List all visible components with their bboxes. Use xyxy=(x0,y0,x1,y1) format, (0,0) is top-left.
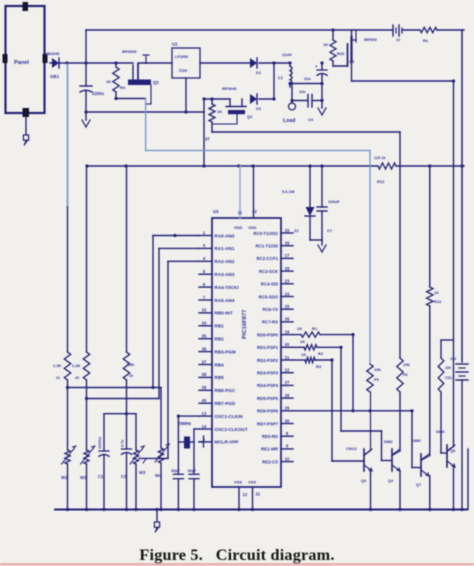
wire pin3 row xyxy=(85,397,159,400)
pin 23 RC4-SDI xyxy=(261,279,293,287)
power rail y166 xyxy=(87,165,464,167)
svg-text:120 1k: 120 1k xyxy=(374,156,387,160)
svg-text:D1: D1 xyxy=(256,70,262,75)
pin 13 OSC1-CLKIN xyxy=(199,411,243,419)
pin 38 RB5 xyxy=(199,372,224,380)
svg-text:22u: 22u xyxy=(304,77,311,81)
svg-text:5.6-1W: 5.6-1W xyxy=(282,189,295,194)
wire D1 to L1 node xyxy=(259,61,292,64)
net 37 label xyxy=(205,137,210,142)
wire rail to corner xyxy=(437,29,464,31)
wire pin29 row xyxy=(293,409,412,412)
ground bus xyxy=(55,509,467,511)
resistor R10 1K xyxy=(323,30,345,66)
solar panel PV1 xyxy=(3,2,48,117)
ground arrow C7 xyxy=(318,245,326,252)
wire rail seg xyxy=(352,29,393,31)
svg-text:37: 37 xyxy=(202,359,207,364)
svg-text:R13: R13 xyxy=(434,300,441,304)
pin 17 RC2-CCP1 xyxy=(257,253,294,261)
transistor Q4 D882 xyxy=(341,431,400,483)
resistor R12 inline xyxy=(374,156,396,184)
ground arrow under C xyxy=(82,112,90,127)
svg-text:VDD: VDD xyxy=(248,225,257,230)
svg-text:10K: 10K xyxy=(403,363,410,367)
svg-text:Q8: Q8 xyxy=(450,449,455,453)
svg-text:RD0-PSP0: RD0-PSP0 xyxy=(257,332,279,337)
svg-text:P5: P5 xyxy=(374,378,379,382)
svg-text:C1: C1 xyxy=(98,474,104,479)
svg-text:RA2-AN2: RA2-AN2 xyxy=(215,259,235,264)
svg-text:MCLR-VPP: MCLR-VPP xyxy=(215,440,239,445)
figure caption xyxy=(139,546,334,564)
svg-text:Q3: Q3 xyxy=(153,80,159,85)
svg-text:34: 34 xyxy=(202,321,207,326)
svg-text:C7: C7 xyxy=(327,228,333,233)
svg-text:RC7-RX: RC7-RX xyxy=(262,320,278,325)
svg-text:Q4: Q4 xyxy=(388,479,394,483)
mosfet Q2 IRF9640 xyxy=(212,87,253,124)
wire x274 down xyxy=(272,63,275,101)
svg-text:20: 20 xyxy=(129,374,133,378)
svg-text:2200u: 2200u xyxy=(92,91,104,96)
svg-text:Con: Con xyxy=(179,68,188,73)
control line y138 xyxy=(212,131,400,133)
svg-text:RE2-CS: RE2-CS xyxy=(262,459,278,464)
svg-text:Q7: Q7 xyxy=(416,483,421,487)
wire pin1 mclr xyxy=(199,436,204,447)
svg-text:26: 26 xyxy=(285,317,290,322)
pin 21 RD2-PSP2 xyxy=(257,355,293,363)
mosfet Q5 IRF540 xyxy=(348,30,377,66)
resistor R5 1K gate xyxy=(209,99,222,132)
trimmer W2 xyxy=(80,446,95,510)
svg-text:RC2-CCP1: RC2-CCP1 xyxy=(257,256,279,261)
wire right edge down xyxy=(461,30,463,362)
transistor Q7 D880 xyxy=(412,439,429,487)
ground arrow under C5 xyxy=(318,101,326,116)
svg-text:RD6-PSP6: RD6-PSP6 xyxy=(257,409,279,414)
svg-text:W3: W3 xyxy=(139,470,146,475)
svg-text:RA3-AN3: RA3-AN3 xyxy=(215,272,235,277)
svg-text:VSS: VSS xyxy=(234,480,242,485)
svg-text:RC4-SDI: RC4-SDI xyxy=(261,282,278,287)
svg-text:RB2: RB2 xyxy=(215,337,225,342)
pin 7 RA5-AN4 xyxy=(199,295,235,303)
svg-text:Rs: Rs xyxy=(423,38,429,43)
trimmer W3 xyxy=(130,414,146,510)
pin 30 RD7-PSP7 xyxy=(257,418,293,426)
svg-text:21: 21 xyxy=(56,376,60,380)
VDD stub pin32 xyxy=(252,166,257,218)
capacitor C4 10u xyxy=(292,77,322,122)
wire x87 down xyxy=(86,166,88,352)
wire P5 to T1 xyxy=(370,392,372,451)
wire Q5 source down xyxy=(351,61,353,81)
wire Q6 emitter xyxy=(370,471,372,510)
wire R4 to gate xyxy=(114,97,145,100)
svg-text:23: 23 xyxy=(285,279,290,284)
node top rail R10 xyxy=(331,28,334,31)
wire pin3 net xyxy=(159,248,199,398)
svg-text:17: 17 xyxy=(285,253,290,258)
pin 20 RD1-PSP1 xyxy=(257,342,293,350)
svg-text:1K: 1K xyxy=(323,42,328,47)
wire x412 down xyxy=(410,409,413,467)
pin 34 RB1 xyxy=(199,321,224,329)
pin 39 RB6-PGC xyxy=(199,385,236,393)
wire x204 down to rail xyxy=(203,99,205,166)
wire panel output xyxy=(50,62,52,64)
resistor R2 1K xyxy=(293,339,343,356)
resistor P5 10K xyxy=(367,364,381,392)
wire Q8 emitter xyxy=(453,468,455,510)
capacitor C8 30pF xyxy=(171,469,183,509)
svg-text:C9013: C9013 xyxy=(346,447,357,451)
long sense wire lower xyxy=(67,207,69,352)
svg-text:R12: R12 xyxy=(377,179,385,184)
svg-text:1K: 1K xyxy=(300,339,305,344)
pin 28 RD5-PSP5 xyxy=(257,393,293,401)
svg-text:100: 100 xyxy=(445,366,451,370)
svg-text:Panel: Panel xyxy=(14,60,29,66)
pin 3 RA1-AN1 xyxy=(199,243,235,251)
svg-text:GB1: GB1 xyxy=(50,74,60,79)
svg-text:U1: U1 xyxy=(172,42,178,47)
ground hook below panel xyxy=(23,135,28,146)
svg-text:R2: R2 xyxy=(318,351,324,356)
bus junction dots xyxy=(66,508,464,511)
capacitor C1 10000u xyxy=(98,414,109,510)
wire pin4 wiper row xyxy=(139,458,168,463)
capacitor C2 4.7u xyxy=(121,414,132,510)
capacitor C9 30pF xyxy=(188,469,200,509)
wire right short xyxy=(467,449,469,510)
svg-text:IRF9640: IRF9640 xyxy=(222,87,237,91)
wire x453 vertical xyxy=(453,81,455,447)
svg-text:12: 12 xyxy=(396,38,400,42)
svg-text:33: 33 xyxy=(202,308,207,313)
svg-text:OSC1-CLKIN: OSC1-CLKIN xyxy=(215,414,244,419)
svg-text:30: 30 xyxy=(285,418,290,423)
VDD stub pin11 xyxy=(238,166,243,218)
svg-text:37: 37 xyxy=(205,137,210,142)
svg-text:+: + xyxy=(315,64,318,69)
svg-text:22uH: 22uH xyxy=(282,52,292,57)
wire C5 node xyxy=(320,61,323,64)
svg-text:1K: 1K xyxy=(106,79,111,84)
svg-text:1K: 1K xyxy=(217,109,222,114)
pin 22 RD3-PSP3 xyxy=(257,368,293,376)
svg-text:4.7u: 4.7u xyxy=(121,440,125,447)
pin 15 RC0-T1OSO xyxy=(253,228,293,236)
svg-text:18: 18 xyxy=(285,266,290,271)
svg-text:RD2-PSP2: RD2-PSP2 xyxy=(257,358,279,363)
svg-text:RC3-SCK: RC3-SCK xyxy=(259,269,279,274)
svg-text:30pF: 30pF xyxy=(171,469,180,473)
svg-text:2.2K: 2.2K xyxy=(53,363,62,368)
svg-text:2.2K: 2.2K xyxy=(72,363,81,368)
pin 9 RE1-WR xyxy=(261,444,293,452)
diode D2 xyxy=(250,94,262,111)
svg-text:R3: R3 xyxy=(316,364,322,369)
wire R10 to gate xyxy=(333,65,348,67)
gate signal wire down xyxy=(145,99,147,151)
regulator U1 LP2950 xyxy=(172,42,200,113)
svg-text:D882: D882 xyxy=(384,440,393,444)
svg-text:20MHz: 20MHz xyxy=(178,421,191,426)
pin 27 RD4-PSP4 xyxy=(257,380,293,388)
pin 16 RC1-T1OSI xyxy=(256,241,293,249)
wire pin4 net xyxy=(168,261,199,458)
svg-text:32: 32 xyxy=(252,209,257,214)
svg-text:RE0-RD: RE0-RD xyxy=(262,434,278,439)
node B junction xyxy=(84,61,87,64)
wire pin2 row xyxy=(66,386,161,389)
resistor R1 1K xyxy=(293,326,355,337)
svg-text:30pF: 30pF xyxy=(188,469,197,473)
wire y81 to right xyxy=(352,79,456,82)
scan artifact bottom pink line xyxy=(0,563,474,565)
svg-text:LP2950: LP2950 xyxy=(175,55,188,59)
wire x341 down xyxy=(340,347,342,431)
svg-text:39: 39 xyxy=(202,385,207,390)
svg-text:RA1-AN1: RA1-AN1 xyxy=(215,246,235,251)
svg-text:11: 11 xyxy=(238,210,243,215)
wire vertical x86 top xyxy=(85,30,87,63)
capacitor C7 100uF xyxy=(317,166,340,240)
wire rail seg2 xyxy=(402,29,420,31)
svg-text:Figure 5. Circuit diagram.: Figure 5. Circuit diagram. xyxy=(139,546,334,564)
crystal X1 20MHz xyxy=(178,421,194,449)
svg-text:29: 29 xyxy=(285,406,290,411)
svg-text:10000u: 10000u xyxy=(98,437,102,449)
svg-text:10u: 10u xyxy=(299,90,306,94)
svg-text:40: 40 xyxy=(202,398,207,403)
transistor Q6 C9013 xyxy=(332,447,372,483)
svg-text:RA0-AN0: RA0-AN0 xyxy=(215,233,235,238)
svg-text:RA5-AN4: RA5-AN4 xyxy=(215,298,235,303)
svg-text:RB7-PGD: RB7-PGD xyxy=(215,401,236,406)
pin 6 RA4-T0CKI xyxy=(199,282,239,290)
wire Q8 collector xyxy=(447,447,454,452)
svg-text:12V: 12V xyxy=(450,357,457,361)
wire Q6 collector xyxy=(364,392,371,456)
svg-text:R10: R10 xyxy=(337,51,345,56)
svg-text:24: 24 xyxy=(285,291,290,296)
pin 29 RD6-PSP6 xyxy=(257,406,293,414)
wire y414 row xyxy=(104,412,136,415)
pin 8 RE0-RD xyxy=(262,431,293,439)
line x400 down xyxy=(399,132,401,358)
resistor Rs xyxy=(420,27,437,43)
svg-text:RC0-T1OSO: RC0-T1OSO xyxy=(253,231,278,236)
svg-text:Q2: Q2 xyxy=(247,114,253,119)
line x370 down xyxy=(369,151,371,365)
svg-text:D880: D880 xyxy=(412,439,421,443)
svg-text:Load: Load xyxy=(283,118,295,124)
svg-text:21: 21 xyxy=(285,355,290,360)
pin 18 RC3-SCK xyxy=(259,266,293,274)
svg-text:RB4: RB4 xyxy=(215,362,225,367)
resistor P6 10K xyxy=(397,358,410,392)
svg-text:12: 12 xyxy=(243,492,248,497)
svg-text:P6: P6 xyxy=(403,373,408,377)
svg-text:R1: R1 xyxy=(312,326,318,331)
wire L1 bottom row xyxy=(288,82,323,85)
rail junction dots xyxy=(85,164,463,167)
svg-text:RC5-SDO: RC5-SDO xyxy=(259,294,279,299)
svg-text:100uF: 100uF xyxy=(328,199,340,204)
VSS stub pin31 xyxy=(253,487,261,510)
wire panel bottom xyxy=(25,117,27,134)
svg-text:RB6-PGC: RB6-PGC xyxy=(215,388,236,393)
svg-text:RD5-PSP5: RD5-PSP5 xyxy=(257,396,279,401)
resistor R13 1K xyxy=(427,166,441,456)
svg-text:RD7-PSP7: RD7-PSP7 xyxy=(257,421,279,426)
resistor R4 1K xyxy=(106,63,126,99)
svg-text:1K: 1K xyxy=(434,291,439,295)
pin 26 RC7-RX xyxy=(262,317,293,325)
pin 2 RA0-AN0 xyxy=(199,230,235,238)
svg-text:15: 15 xyxy=(285,228,290,233)
svg-text:31: 31 xyxy=(256,492,261,497)
svg-text:RB3-PGM: RB3-PGM xyxy=(215,349,236,354)
VSS stub pin12 xyxy=(239,487,248,510)
diode D0 SB1640 xyxy=(45,51,60,79)
ground hook at bus xyxy=(154,508,159,533)
load terminal xyxy=(283,103,296,124)
pin 36 RB3-PGM xyxy=(199,346,236,354)
svg-text:RE1-WR: RE1-WR xyxy=(261,447,279,452)
pin 35 RB2 xyxy=(199,334,224,342)
control line y151 xyxy=(146,150,370,152)
svg-text:14: 14 xyxy=(202,424,207,429)
inductor L1 22uH xyxy=(278,52,292,87)
battery B1 12V xyxy=(450,357,468,510)
wire W4 column xyxy=(160,388,162,449)
pin 37 RB4 xyxy=(199,359,224,367)
svg-text:27: 27 xyxy=(285,380,290,385)
svg-text:1K: 1K xyxy=(297,326,302,331)
wire x332 down xyxy=(331,360,333,461)
pin 14 OSC2-CLKOUT xyxy=(199,424,248,432)
svg-text:C2: C2 xyxy=(121,474,127,479)
svg-text:25: 25 xyxy=(285,304,290,309)
svg-text:IRF540: IRF540 xyxy=(364,37,377,42)
svg-text:CS1: CS1 xyxy=(445,376,452,380)
svg-text:10: 10 xyxy=(285,456,290,461)
pin 33 RB0-INT xyxy=(199,308,233,316)
svg-text:2.2K: 2.2K xyxy=(126,362,135,367)
trimmer W4 xyxy=(155,444,169,510)
svg-text:RD4-PSP4: RD4-PSP4 xyxy=(257,383,279,388)
svg-text:L1: L1 xyxy=(278,75,284,80)
svg-text:RA4-T0CKI: RA4-T0CKI xyxy=(215,285,239,290)
pin 19 RD0-PSP0 xyxy=(257,329,293,337)
svg-text:RB5: RB5 xyxy=(215,375,225,380)
svg-text:RB0-INT: RB0-INT xyxy=(215,311,233,316)
svg-text:VDD: VDD xyxy=(234,225,243,230)
svg-text:38: 38 xyxy=(202,372,207,377)
svg-text:RD3-PSP3: RD3-PSP3 xyxy=(257,371,279,376)
wire pin2 net xyxy=(153,234,199,388)
svg-text:RC1-T1OSI: RC1-T1OSI xyxy=(256,244,278,249)
svg-text:RD1-PSP1: RD1-PSP1 xyxy=(257,345,279,350)
svg-text:20: 20 xyxy=(75,376,79,380)
diode D1 xyxy=(250,58,262,75)
wire x126 down xyxy=(126,166,128,352)
pin 10 RE2-CS xyxy=(262,456,293,464)
wire Q4 collector xyxy=(392,451,400,456)
wire load branch xyxy=(290,84,293,103)
wire pin13 osc1 xyxy=(177,415,199,475)
resistor R8 2.2K xyxy=(123,352,134,414)
wire Q7 emitter xyxy=(429,476,431,510)
svg-text:D2: D2 xyxy=(256,106,262,111)
svg-text:36: 36 xyxy=(202,346,207,351)
svg-text:Z2: Z2 xyxy=(294,228,299,233)
svg-text:RB1: RB1 xyxy=(215,324,225,329)
battery symbol E1 top xyxy=(393,25,402,42)
wire diode to node A xyxy=(59,62,67,64)
wire zener cap join xyxy=(310,240,322,245)
wire x353 down xyxy=(352,335,354,411)
capacitor C 2200u xyxy=(80,63,104,112)
svg-text:U3: U3 xyxy=(213,209,219,214)
wire pin14 osc2 xyxy=(194,429,199,474)
wire top rail y30 xyxy=(86,29,352,31)
svg-text:1K: 1K xyxy=(301,352,306,357)
wire Q7 collector xyxy=(421,456,430,461)
resistor R3 1K xyxy=(293,352,334,369)
svg-text:10K: 10K xyxy=(374,368,381,372)
IC U3 PIC16F877 body xyxy=(212,209,281,487)
svg-text:OSC2-CLKOUT: OSC2-CLKOUT xyxy=(215,427,248,432)
svg-text:IRF9540: IRF9540 xyxy=(122,50,137,54)
long sense wire node A upper xyxy=(67,63,69,207)
wire regulator out xyxy=(200,62,250,64)
capacitor C5 22u xyxy=(315,63,327,102)
resistor R14 100 xyxy=(438,340,453,453)
svg-text:35: 35 xyxy=(202,334,207,339)
mosfet Q3 IRF9540 xyxy=(122,50,159,104)
resistor R7 2.2K xyxy=(72,352,90,450)
svg-text:D880: D880 xyxy=(436,430,445,434)
resistor R6 2.2K xyxy=(53,352,71,450)
svg-text:R4: R4 xyxy=(120,85,126,90)
svg-text:RC6-TX: RC6-TX xyxy=(262,307,278,312)
svg-text:22: 22 xyxy=(285,368,290,373)
pin 4 RA2-AN2 xyxy=(199,256,235,264)
zener Z2 5.6V xyxy=(282,166,315,240)
wire Q2 row xyxy=(202,97,230,100)
svg-text:VSS: VSS xyxy=(248,480,256,485)
trimmer W1 xyxy=(61,446,76,510)
svg-text:PIC16F877: PIC16F877 xyxy=(242,310,248,339)
pin 25 RC6-TX xyxy=(262,304,293,312)
svg-text:28: 28 xyxy=(285,393,290,398)
pin 24 RC5-SDO xyxy=(259,291,293,299)
transistor Q8 D880 xyxy=(436,430,455,467)
svg-text:13: 13 xyxy=(202,411,207,416)
wire main y63 xyxy=(86,61,172,64)
svg-text:16: 16 xyxy=(285,241,290,246)
svg-text:20: 20 xyxy=(285,342,290,347)
wire Q4 emitter xyxy=(399,471,401,510)
wire gnd y112 xyxy=(84,110,204,113)
svg-text:19: 19 xyxy=(285,329,290,334)
